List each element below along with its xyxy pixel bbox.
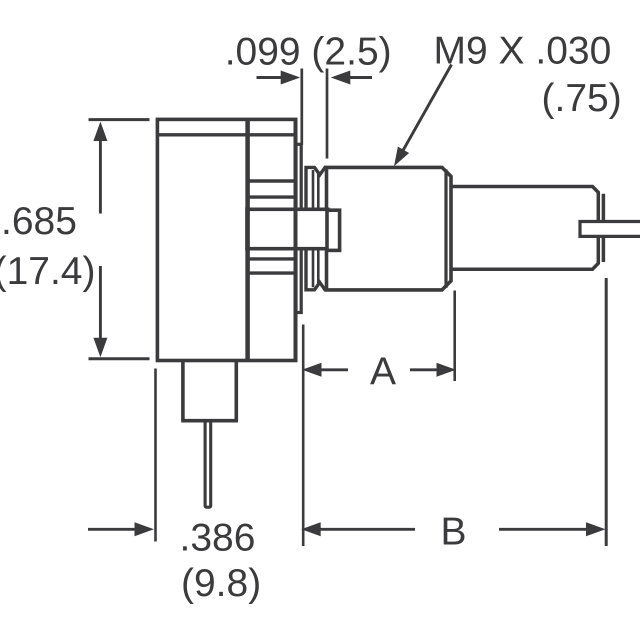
svg-text:(17.4): (17.4)	[0, 250, 96, 293]
wafer lines	[247, 181, 296, 197]
ext line .386 left	[154, 369, 157, 542]
svg-text:(9.8): (9.8)	[181, 562, 261, 605]
dim .386 left	[88, 528, 136, 531]
svg-text:M9 X .030: M9 X .030	[434, 30, 612, 73]
rotor tab	[247, 209, 328, 248]
dim .099 lines	[257, 76, 284, 79]
svg-text:B: B	[441, 511, 467, 554]
.685 up	[93, 122, 107, 142]
M9 leader arrowhead	[394, 147, 409, 167]
cylinder M9	[327, 167, 452, 290]
.685 down	[93, 338, 107, 358]
A left (points left)	[302, 363, 322, 377]
shaft end inner line	[602, 194, 606, 262]
.099 left (points right)	[281, 71, 301, 85]
svg-text:.386: .386	[180, 517, 256, 560]
washer	[296, 144, 301, 312]
bushing threaded section top profile	[306, 167, 327, 209]
svg-text:.685: .685	[1, 200, 77, 243]
.099 right (points left)	[331, 71, 351, 85]
svg-text:.099 (2.5): .099 (2.5)	[225, 30, 392, 73]
shaft	[451, 187, 598, 270]
ext line B right	[605, 278, 608, 546]
dim A line	[320, 368, 437, 371]
.386 left (points right)	[135, 522, 155, 536]
pin	[205, 421, 211, 508]
dim B right	[499, 528, 587, 531]
body outline	[157, 119, 295, 360]
thread lines	[313, 170, 318, 209]
M9 leader	[401, 65, 452, 155]
ext lines A	[303, 291, 455, 547]
inner top line	[157, 133, 296, 136]
dim .685	[89, 120, 150, 359]
bushing threaded section bottom profile	[306, 248, 327, 290]
ext lines .099	[302, 69, 327, 159]
.386 right / B left (points left)	[301, 522, 321, 536]
A right (points right)	[437, 363, 457, 377]
terminal box	[181, 361, 238, 421]
svg-text:A: A	[370, 351, 396, 394]
divider	[245, 119, 250, 360]
shared arrow tail (.386 right / B left)	[320, 528, 415, 531]
slot	[580, 222, 640, 237]
shaft end box	[327, 210, 340, 250]
cylinder chamfer inner line	[444, 169, 447, 288]
B right (points right)	[586, 522, 606, 536]
svg-text:(.75): (.75)	[542, 77, 622, 120]
